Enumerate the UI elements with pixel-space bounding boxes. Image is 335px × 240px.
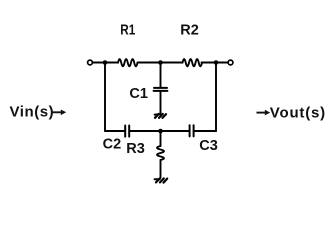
svg-text:R3: R3 <box>126 141 145 157</box>
svg-text:Vout(s): Vout(s) <box>270 104 326 121</box>
svg-text:R2: R2 <box>180 23 199 39</box>
svg-text:C2: C2 <box>103 136 122 152</box>
svg-text:C3: C3 <box>199 138 218 154</box>
svg-text:R1: R1 <box>120 23 135 39</box>
svg-text:Vin(s): Vin(s) <box>10 103 55 120</box>
svg-text:C1: C1 <box>129 86 148 102</box>
